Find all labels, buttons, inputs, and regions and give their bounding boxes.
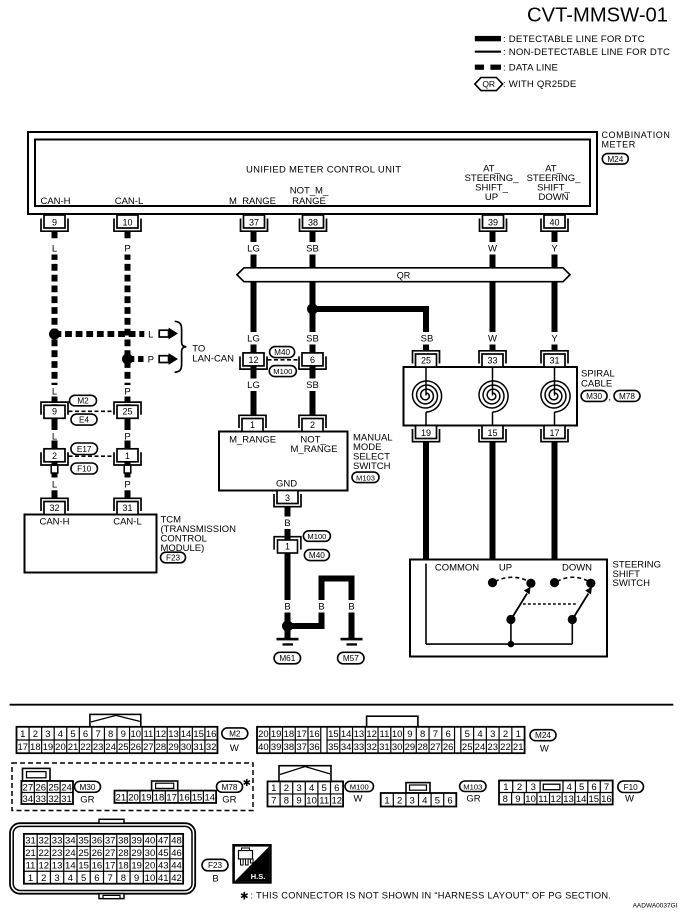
svg-text:15: 15 [487, 428, 497, 438]
svg-text:32: 32 [48, 794, 59, 805]
svg-text:25: 25 [48, 782, 59, 793]
svg-text:1: 1 [250, 420, 255, 430]
svg-text:21: 21 [116, 792, 127, 803]
svg-text:1: 1 [20, 729, 25, 740]
svg-text:39: 39 [271, 742, 282, 753]
svg-text:16: 16 [206, 729, 217, 740]
svg-text:33: 33 [354, 742, 365, 753]
svg-text:1: 1 [516, 729, 521, 740]
svg-text:M40: M40 [274, 348, 290, 357]
svg-text:38: 38 [284, 742, 295, 753]
svg-text:DOWN: DOWN [538, 192, 568, 203]
svg-text:48: 48 [171, 836, 182, 847]
svg-text:27: 27 [105, 848, 116, 859]
svg-text:26: 26 [35, 782, 46, 793]
svg-text:32: 32 [49, 503, 59, 513]
svg-text:28: 28 [156, 742, 167, 753]
svg-text:6: 6 [447, 795, 452, 806]
svg-text:LAN-CAN: LAN-CAN [192, 353, 234, 364]
svg-text:M78: M78 [222, 783, 238, 792]
svg-text:12: 12 [332, 796, 343, 807]
svg-text:16: 16 [92, 861, 103, 872]
svg-text:: DATA LINE: : DATA LINE [503, 62, 558, 73]
svg-text:40: 40 [145, 836, 156, 847]
svg-text:3: 3 [531, 782, 536, 793]
svg-text:9: 9 [121, 729, 126, 740]
svg-text:40: 40 [549, 217, 559, 227]
svg-text:31: 31 [61, 794, 72, 805]
svg-text:AADWA0037GI: AADWA0037GI [633, 903, 678, 910]
svg-text:10: 10 [525, 794, 536, 805]
svg-text:CAN-H: CAN-H [40, 196, 70, 207]
svg-text:10: 10 [145, 873, 156, 884]
svg-text:14: 14 [204, 792, 215, 803]
svg-text:M57: M57 [343, 654, 359, 663]
svg-text:20: 20 [128, 792, 139, 803]
svg-text:40: 40 [258, 742, 269, 753]
svg-text:5: 5 [81, 873, 86, 884]
svg-text:42: 42 [171, 873, 182, 884]
svg-text:19: 19 [141, 792, 152, 803]
svg-text:26: 26 [443, 742, 454, 753]
svg-text:33: 33 [52, 836, 63, 847]
svg-text:8: 8 [108, 729, 113, 740]
svg-text:36: 36 [92, 836, 103, 847]
svg-text:3: 3 [296, 783, 301, 794]
svg-text:METER: METER [602, 140, 636, 150]
svg-text:9: 9 [52, 407, 57, 417]
svg-text:6: 6 [446, 729, 451, 740]
svg-text:21: 21 [25, 848, 36, 859]
svg-text:10: 10 [392, 729, 403, 740]
svg-text:15: 15 [193, 729, 204, 740]
svg-text:44: 44 [171, 861, 182, 872]
svg-text:24: 24 [61, 782, 72, 793]
svg-text:7: 7 [108, 873, 113, 884]
svg-text:L: L [52, 244, 57, 255]
svg-text:UP: UP [499, 563, 512, 574]
svg-text:12: 12 [156, 729, 167, 740]
svg-text:7: 7 [604, 782, 609, 793]
svg-text:: NON-DETECTABLE LINE FOR DTC: : NON-DETECTABLE LINE FOR DTC [503, 47, 670, 58]
svg-text:25: 25 [118, 742, 129, 753]
svg-text:28: 28 [417, 742, 428, 753]
svg-text:37: 37 [249, 217, 259, 227]
svg-text:7: 7 [95, 729, 100, 740]
svg-text:6: 6 [591, 782, 596, 793]
svg-text:14: 14 [65, 861, 76, 872]
svg-text:SB: SB [306, 334, 319, 345]
svg-text:10: 10 [122, 217, 132, 227]
svg-text:4: 4 [477, 729, 482, 740]
svg-text:M30: M30 [586, 392, 602, 401]
svg-text:M_RANGE: M_RANGE [291, 444, 338, 455]
svg-text:CAN-H: CAN-H [39, 517, 69, 528]
svg-text:,: , [609, 392, 612, 402]
svg-text:: THIS CONNECTOR IS NOT SHOWN: : THIS CONNECTOR IS NOT SHOWN IN “HARNES… [251, 891, 612, 901]
svg-text:Y: Y [551, 244, 558, 255]
svg-text:W: W [230, 743, 239, 754]
svg-text:SWITCH: SWITCH [353, 461, 391, 472]
svg-text:LG: LG [247, 334, 260, 345]
svg-text:B: B [318, 602, 324, 613]
svg-text:2: 2 [284, 783, 289, 794]
svg-text:17: 17 [549, 428, 559, 438]
svg-text:GR: GR [222, 795, 236, 806]
svg-text:15: 15 [192, 792, 203, 803]
svg-text:LG: LG [247, 244, 260, 255]
svg-text:9: 9 [296, 796, 301, 807]
svg-text:20: 20 [55, 742, 66, 753]
svg-text:23: 23 [52, 848, 63, 859]
svg-text:14: 14 [341, 729, 352, 740]
svg-text:UNIFIED METER CONTROL UNIT: UNIFIED METER CONTROL UNIT [246, 165, 401, 176]
svg-text:W: W [488, 334, 497, 345]
svg-text:37: 37 [105, 836, 116, 847]
svg-text:5: 5 [435, 795, 440, 806]
svg-text:11: 11 [319, 796, 329, 807]
svg-text:6: 6 [83, 729, 88, 740]
svg-text:2: 2 [517, 782, 522, 793]
svg-text:19: 19 [131, 861, 142, 872]
svg-text:4: 4 [309, 783, 314, 794]
svg-text:SB: SB [306, 380, 319, 391]
svg-text:E4: E4 [79, 416, 89, 425]
svg-text:W: W [625, 794, 634, 805]
svg-text:38: 38 [118, 836, 129, 847]
svg-text:46: 46 [171, 848, 182, 859]
svg-text:11: 11 [143, 729, 153, 740]
svg-text:33: 33 [487, 355, 497, 365]
svg-text:16: 16 [309, 729, 320, 740]
svg-text:24: 24 [105, 742, 116, 753]
svg-text:M2: M2 [77, 397, 89, 406]
svg-text:45: 45 [158, 848, 169, 859]
svg-text:18: 18 [154, 792, 165, 803]
svg-text:8: 8 [121, 873, 126, 884]
svg-text:M103: M103 [356, 473, 375, 482]
svg-text:1: 1 [28, 873, 33, 884]
svg-text:F23: F23 [208, 861, 223, 870]
svg-text:20: 20 [258, 729, 269, 740]
svg-text:30: 30 [145, 848, 156, 859]
svg-text:7: 7 [271, 796, 276, 807]
svg-text:4: 4 [422, 795, 427, 806]
svg-text:26: 26 [131, 742, 142, 753]
svg-text:11: 11 [26, 861, 36, 872]
svg-text:NOT_M_: NOT_M_ [290, 186, 329, 197]
svg-text:M_RANGE: M_RANGE [229, 435, 276, 446]
svg-text:31: 31 [25, 836, 36, 847]
svg-text:P: P [148, 354, 154, 365]
svg-text:12: 12 [366, 729, 377, 740]
svg-text:M100: M100 [273, 367, 292, 376]
svg-text:B: B [284, 602, 290, 613]
svg-text:39: 39 [131, 836, 142, 847]
svg-text:11: 11 [379, 729, 389, 740]
svg-text:24: 24 [475, 742, 486, 753]
svg-text:34: 34 [23, 794, 34, 805]
svg-text:17: 17 [105, 861, 116, 872]
svg-text:32: 32 [39, 836, 50, 847]
svg-text:M40: M40 [309, 551, 325, 560]
svg-text:RANGE: RANGE [292, 196, 326, 207]
svg-text:30: 30 [181, 742, 192, 753]
svg-text:4: 4 [68, 873, 73, 884]
svg-text:30: 30 [392, 742, 403, 753]
svg-text:26: 26 [92, 848, 103, 859]
svg-text:27: 27 [143, 742, 154, 753]
svg-text:2: 2 [41, 873, 46, 884]
svg-text:L: L [52, 387, 57, 398]
svg-text:25: 25 [78, 848, 89, 859]
svg-text:F10: F10 [77, 465, 92, 474]
svg-text:1: 1 [384, 795, 389, 806]
svg-text:B: B [348, 602, 354, 613]
svg-text:28: 28 [118, 848, 129, 859]
svg-text:43: 43 [158, 861, 169, 872]
svg-text:2: 2 [503, 729, 508, 740]
svg-text:GR: GR [466, 794, 480, 805]
svg-text:M_RANGE: M_RANGE [229, 196, 276, 207]
svg-text:5: 5 [465, 729, 470, 740]
svg-text:2: 2 [52, 451, 57, 461]
svg-text:LG: LG [247, 380, 260, 391]
svg-text:31: 31 [379, 742, 390, 753]
svg-text:22: 22 [500, 742, 511, 753]
svg-text:GR: GR [80, 795, 94, 806]
svg-text:12: 12 [248, 355, 258, 365]
svg-text:17: 17 [17, 742, 28, 753]
svg-text:27: 27 [430, 742, 441, 753]
svg-text:W: W [354, 794, 363, 805]
svg-text:M61: M61 [279, 654, 295, 663]
svg-text:W: W [488, 244, 497, 255]
svg-text:Y: Y [551, 334, 558, 345]
svg-text:H.S.: H.S. [251, 872, 266, 881]
svg-text:20: 20 [145, 861, 156, 872]
svg-text:36: 36 [309, 742, 320, 753]
svg-text:P: P [124, 244, 130, 255]
svg-text:18: 18 [118, 861, 129, 872]
svg-text:13: 13 [168, 729, 179, 740]
svg-text:7: 7 [433, 729, 438, 740]
svg-text:9: 9 [134, 873, 139, 884]
svg-text:CAN-L: CAN-L [113, 517, 142, 528]
svg-text:19: 19 [43, 742, 54, 753]
svg-text:35: 35 [328, 742, 339, 753]
svg-text:29: 29 [405, 742, 416, 753]
svg-text:13: 13 [563, 794, 574, 805]
svg-text:33: 33 [35, 794, 46, 805]
svg-text:M24: M24 [607, 155, 623, 164]
svg-text:12: 12 [39, 861, 50, 872]
svg-text:1: 1 [125, 451, 130, 461]
svg-text:GND: GND [276, 479, 297, 490]
svg-text:41: 41 [158, 873, 169, 884]
svg-text:B: B [284, 518, 290, 529]
svg-text:9: 9 [515, 794, 520, 805]
svg-text:29: 29 [131, 848, 142, 859]
svg-text:1: 1 [271, 783, 276, 794]
svg-text:F10: F10 [624, 783, 639, 792]
svg-text:18: 18 [30, 742, 41, 753]
svg-text:1: 1 [285, 542, 290, 552]
svg-text:P: P [124, 480, 130, 491]
svg-text:5: 5 [70, 729, 75, 740]
svg-text:3: 3 [490, 729, 495, 740]
svg-text:17: 17 [166, 792, 177, 803]
svg-text:19: 19 [271, 729, 282, 740]
svg-text:M78: M78 [619, 392, 635, 401]
svg-text:15: 15 [588, 794, 599, 805]
svg-text:QR: QR [397, 271, 411, 281]
svg-text:3: 3 [285, 493, 290, 503]
svg-text:3: 3 [45, 729, 50, 740]
svg-text:25: 25 [122, 407, 132, 417]
svg-text:M30: M30 [80, 783, 96, 792]
svg-text:34: 34 [65, 836, 76, 847]
svg-text:3: 3 [54, 873, 59, 884]
svg-text:31: 31 [193, 742, 204, 753]
svg-text:10: 10 [131, 729, 142, 740]
svg-text:B: B [212, 874, 218, 885]
svg-text:1: 1 [503, 782, 508, 793]
svg-text:19: 19 [421, 428, 431, 438]
svg-text:25: 25 [462, 742, 473, 753]
svg-text:15: 15 [328, 729, 339, 740]
svg-text:E17: E17 [77, 445, 92, 454]
svg-text:2: 2 [33, 729, 38, 740]
svg-text:38: 38 [308, 217, 318, 227]
svg-text:6: 6 [310, 355, 315, 365]
svg-text:: WITH QR25DE: : WITH QR25DE [503, 79, 577, 90]
svg-text:21: 21 [68, 742, 79, 753]
svg-text:9: 9 [407, 729, 412, 740]
svg-text:22: 22 [39, 848, 50, 859]
svg-text:9: 9 [52, 217, 57, 227]
svg-text:DOWN: DOWN [562, 563, 592, 574]
svg-text:27: 27 [23, 782, 34, 793]
svg-text:M24: M24 [535, 731, 551, 740]
svg-text:4: 4 [58, 729, 63, 740]
svg-text:13: 13 [354, 729, 365, 740]
svg-text:QR: QR [482, 79, 495, 89]
svg-text:SWITCH: SWITCH [613, 578, 651, 589]
svg-text:CVT-MMSW-01: CVT-MMSW-01 [527, 5, 668, 27]
svg-text:29: 29 [168, 742, 179, 753]
svg-text:F23: F23 [166, 554, 181, 563]
svg-text:25: 25 [421, 355, 431, 365]
svg-text:L: L [148, 329, 153, 340]
svg-text:39: 39 [488, 217, 498, 227]
svg-text:31: 31 [122, 503, 132, 513]
svg-text:24: 24 [65, 848, 76, 859]
svg-text:14: 14 [576, 794, 587, 805]
svg-text:6: 6 [94, 873, 99, 884]
svg-text:5: 5 [579, 782, 584, 793]
svg-text:COMBINATION: COMBINATION [602, 130, 671, 140]
svg-text:23: 23 [93, 742, 104, 753]
svg-text:22: 22 [80, 742, 91, 753]
svg-text:35: 35 [78, 836, 89, 847]
svg-text:3: 3 [410, 795, 415, 806]
svg-text:5: 5 [322, 783, 327, 794]
svg-text:8: 8 [503, 794, 508, 805]
svg-text:6: 6 [334, 783, 339, 794]
svg-text:47: 47 [158, 836, 169, 847]
svg-text:M2: M2 [229, 729, 241, 738]
svg-text:16: 16 [179, 792, 190, 803]
svg-text:37: 37 [296, 742, 307, 753]
svg-text:8: 8 [420, 729, 425, 740]
svg-text:SB: SB [421, 334, 434, 345]
svg-text:M100: M100 [350, 782, 369, 791]
svg-text:10: 10 [306, 796, 317, 807]
svg-text:31: 31 [549, 355, 559, 365]
svg-text:2: 2 [397, 795, 402, 806]
svg-text:UP: UP [485, 192, 498, 203]
svg-text:32: 32 [366, 742, 377, 753]
svg-text:34: 34 [341, 742, 352, 753]
svg-text:12: 12 [551, 794, 562, 805]
svg-text:23: 23 [487, 742, 498, 753]
svg-text:CAN-L: CAN-L [115, 196, 144, 207]
svg-text:SB: SB [306, 244, 319, 255]
svg-text:P: P [124, 387, 130, 398]
svg-text:21: 21 [513, 742, 524, 753]
svg-text:4: 4 [567, 782, 572, 793]
svg-text:2: 2 [310, 420, 315, 430]
svg-text:M100: M100 [307, 532, 326, 541]
svg-text:COMMON: COMMON [435, 563, 479, 574]
svg-text:M103: M103 [463, 782, 482, 791]
svg-text:CABLE: CABLE [581, 379, 612, 390]
svg-text:14: 14 [181, 729, 192, 740]
svg-text:32: 32 [206, 742, 217, 753]
svg-text:15: 15 [78, 861, 89, 872]
svg-text:W: W [540, 744, 549, 755]
svg-text:: DETECTABLE LINE FOR DTC: : DETECTABLE LINE FOR DTC [503, 34, 645, 45]
svg-text:17: 17 [296, 729, 307, 740]
svg-text:11: 11 [538, 794, 548, 805]
svg-text:16: 16 [601, 794, 612, 805]
svg-text:18: 18 [284, 729, 295, 740]
svg-text:8: 8 [284, 796, 289, 807]
svg-text:L: L [52, 480, 57, 491]
svg-text:13: 13 [52, 861, 63, 872]
